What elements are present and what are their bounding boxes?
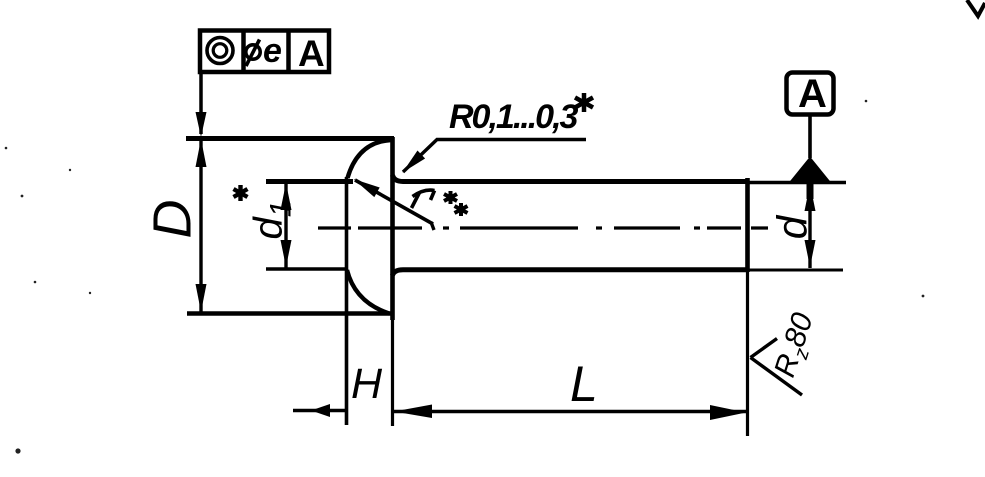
dome left edge and H extension line xyxy=(345,177,349,425)
dome top arc xyxy=(348,140,392,178)
shank end face and L extension xyxy=(745,178,750,272)
axis center line xyxy=(318,226,768,229)
dome bottom arc xyxy=(347,270,389,314)
r sphere note leader xyxy=(355,180,433,224)
svg-text:A: A xyxy=(798,72,827,116)
head face line and H extension xyxy=(390,137,395,320)
datum stem xyxy=(808,114,812,158)
head bottom line xyxy=(187,311,392,315)
d1 asterisk xyxy=(234,185,248,201)
L dimension line xyxy=(393,410,748,413)
R note asterisk xyxy=(575,93,593,112)
svg-text:e: e xyxy=(263,32,282,70)
datum extension line top right xyxy=(747,181,846,184)
svg-text:d: d xyxy=(769,214,816,239)
datum box A xyxy=(787,73,834,115)
svg-text:Rz80: Rz80 xyxy=(768,309,824,383)
svg-text:d1: d1 xyxy=(247,201,298,240)
roughness mark xyxy=(751,339,803,396)
shank bottom line with fillet xyxy=(393,270,748,276)
datum triangle xyxy=(789,157,832,184)
head top line xyxy=(186,136,394,141)
r glyph xyxy=(412,190,435,208)
bottom right extension line xyxy=(747,269,843,272)
d dimension line xyxy=(808,183,811,268)
svg-text:H: H xyxy=(351,360,383,408)
leader from frame xyxy=(199,72,203,134)
d1 bottom extension line xyxy=(266,267,347,270)
H dimension tail and arrow xyxy=(293,409,345,412)
svg-text:A: A xyxy=(298,33,325,74)
svg-text:R0,1...0,3: R0,1...0,3 xyxy=(449,98,579,136)
d1 top extension line xyxy=(266,179,353,184)
corner check mark xyxy=(967,0,985,16)
D dimension line xyxy=(199,137,202,312)
R note leader xyxy=(403,140,586,173)
shank top line with fillet xyxy=(393,175,748,182)
tolerance frame box xyxy=(200,31,329,73)
d1 dimension line xyxy=(284,182,287,268)
r note asterisks xyxy=(444,191,468,216)
svg-text:D: D xyxy=(143,200,203,239)
svg-text:L: L xyxy=(570,356,598,412)
speckles xyxy=(5,100,925,454)
concentricity symbol xyxy=(207,38,233,64)
diameter symbol phi-e xyxy=(246,40,260,67)
